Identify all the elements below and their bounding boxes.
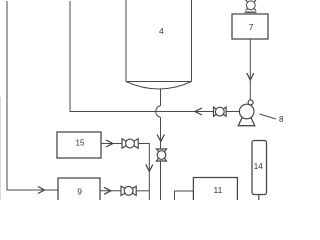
wire valve V2 to junction <box>136 190 149 192</box>
tank 4 <box>126 0 192 89</box>
valve V2 after box 9 <box>121 186 136 195</box>
arrow left on pump line <box>195 108 202 115</box>
wire second vertical line to pump suction header <box>70 1 240 112</box>
box 9 <box>58 178 100 204</box>
arrow into box 9 <box>38 187 45 194</box>
column 14 <box>252 141 267 201</box>
svg-text:4: 4 <box>159 26 164 36</box>
valve V4 pump suction <box>214 107 227 116</box>
arrow right after box 15 <box>106 140 113 147</box>
svg-text:7: 7 <box>249 22 254 32</box>
valve V3 vertical on tank outlet <box>156 149 166 161</box>
faint left edge artifact <box>0 97 2 200</box>
wire tank outlet continues down <box>160 117 162 200</box>
box 15 <box>57 132 101 158</box>
wire box 15 to valve <box>101 143 122 145</box>
wire inlet to box 11 <box>175 191 194 200</box>
wire box 9 to valve <box>100 190 121 192</box>
svg-text:15: 15 <box>76 139 85 148</box>
arrow down from box 7 <box>247 73 254 80</box>
svg-text:14: 14 <box>254 162 263 171</box>
wire tank outlet <box>160 89 162 106</box>
wire box 7 down to pump <box>249 39 251 100</box>
box 11 <box>193 178 237 205</box>
arrow down on tank outlet <box>157 135 164 142</box>
wire crossing jog <box>156 106 161 117</box>
leader line for label 8 <box>260 114 277 119</box>
valve V1 after box 15 <box>122 139 138 148</box>
svg-text:11: 11 <box>214 185 223 195</box>
wire left vertical line <box>7 1 58 190</box>
svg-text:8: 8 <box>279 115 284 124</box>
agitator symbol above box 7 <box>245 0 257 12</box>
arrow down on x149 line <box>146 165 153 172</box>
wire valve V1 to down line <box>138 144 149 201</box>
box 7 <box>232 14 268 39</box>
pump 8 <box>238 100 255 126</box>
svg-text:9: 9 <box>77 187 82 197</box>
arrow right after box 9 <box>104 187 111 194</box>
